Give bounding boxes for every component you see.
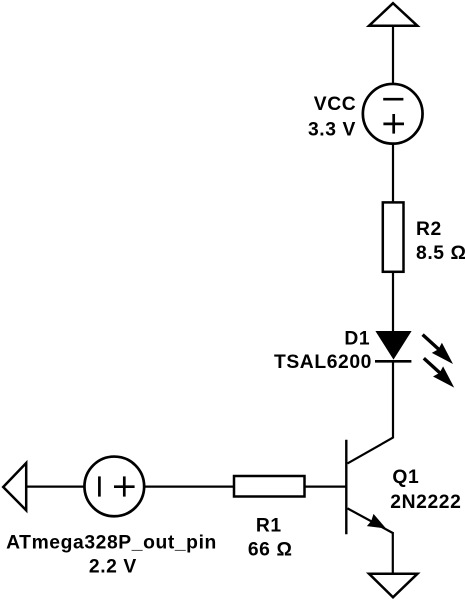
label R1 66 ohm [248, 516, 293, 561]
label VCC 3.3 V [308, 94, 356, 140]
wire: source to R1 [144, 486, 233, 488]
svg-text:2.2 V: 2.2 V [89, 557, 137, 578]
svg-text:R2: R2 [416, 219, 442, 240]
wire: R1 to Q1 base [306, 486, 347, 488]
svg-text:3.3 V: 3.3 V [308, 119, 356, 140]
diode D1 (LED, anode top) [375, 332, 411, 362]
LED emission arrow 1 [423, 335, 453, 364]
svg-text:8.5 Ω: 8.5 Ω [416, 243, 465, 264]
wire: Q1 emitter to ground port [392, 532, 394, 574]
transistor Q1 (NPN 2N2222) [346, 438, 393, 535]
resistor R1 [234, 476, 305, 497]
wire: VCC source to R2 [392, 144, 394, 202]
ground port arrow down [369, 574, 418, 598]
svg-text:R1: R1 [256, 516, 282, 537]
label ATmega328P_out_pin 2.2 V [6, 532, 217, 577]
wire: R2 to D1 [392, 272, 394, 332]
label Q1 2N2222 [390, 467, 461, 513]
svg-text:Q1: Q1 [392, 467, 419, 488]
port arrow up (VCC rail terminal) [369, 3, 417, 26]
svg-text:ATmega328P_out_pin: ATmega328P_out_pin [6, 532, 217, 553]
svg-text:D1: D1 [344, 329, 370, 350]
label D1 TSAL6200 [274, 329, 372, 373]
label R2 8.5 ohm [416, 219, 465, 264]
wire: D1 to Q1 collector [392, 361, 394, 438]
resistor R2 [383, 202, 404, 271]
port arrow left (ATmega pin terminal) [3, 463, 26, 510]
LED emission arrow 2 [424, 358, 454, 387]
svg-text:66 Ω: 66 Ω [248, 540, 293, 561]
wire: top arrow to VCC source [392, 27, 394, 84]
voltage source ATmega328P_out_pin [84, 457, 144, 517]
svg-text:2N2222: 2N2222 [390, 492, 461, 513]
svg-text:TSAL6200: TSAL6200 [274, 352, 372, 373]
svg-text:VCC: VCC [314, 94, 357, 115]
voltage source V-VCC [363, 84, 423, 144]
wire: left port to source [26, 486, 84, 488]
